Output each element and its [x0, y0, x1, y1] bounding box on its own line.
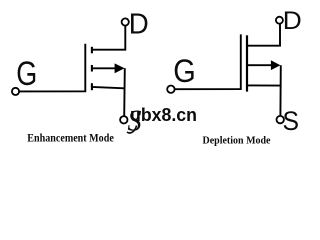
pin label S (Q1, script style): [127, 103, 142, 138]
node S2 terminal circle: [277, 116, 284, 123]
svg-text:G: G: [173, 53, 196, 89]
wire source vertical S2: [279, 65, 281, 116]
node G2 terminal circle: [167, 86, 174, 93]
node D1 terminal circle: [122, 18, 129, 25]
node D2 terminal circle: [276, 17, 283, 24]
arrowhead body arrow Q2: [271, 60, 281, 70]
svg-text:Enhancement Mode: Enhancement Mode: [27, 131, 114, 145]
wire drain lead D2: [247, 24, 280, 46]
wire source vertical S1: [123, 68, 126, 116]
wire body arrow lead Q2: [247, 64, 272, 66]
pin label G (Q1): [16, 55, 37, 93]
svg-text:D: D: [129, 8, 149, 40]
pin label D (Q1): [129, 8, 149, 40]
arrowhead body arrow Q1: [115, 63, 125, 73]
svg-text:Depletion Mode: Depletion Mode: [203, 134, 271, 146]
pin label G (Q2): [173, 53, 196, 89]
channel segment bottom (source side): [91, 83, 93, 90]
transistor Q2 depletion-mode MOSFET: [167, 17, 284, 124]
transistor Q1 enhancement-mode MOSFET: [12, 18, 129, 123]
wire source lead S2: [247, 84, 281, 86]
wire drain lead D1: [92, 26, 125, 50]
pin label D (Q2): [283, 7, 302, 35]
channel segment middle (body): [91, 65, 93, 72]
node G1 terminal circle: [12, 88, 19, 95]
svg-text:S: S: [283, 106, 300, 136]
channel segment top (drain side): [91, 47, 93, 54]
channel bar (continuous, depletion): [246, 35, 248, 91]
wire gate lead G1: [19, 44, 85, 92]
wire body arrow lead Q1: [92, 67, 116, 69]
wire gate lead G2: [175, 34, 241, 89]
svg-text:G: G: [16, 55, 37, 93]
pin label S (Q2): [283, 106, 300, 136]
svg-text:D: D: [283, 7, 302, 35]
watermark ubx8.cn: [130, 104, 197, 125]
caption: Enhancement Mode: [27, 131, 114, 145]
svg-text:ubx8.cn: ubx8.cn: [130, 104, 197, 125]
caption: Depletion Mode: [203, 134, 271, 146]
wire source lead S1: [92, 87, 125, 88]
node S1 terminal circle: [120, 116, 127, 123]
